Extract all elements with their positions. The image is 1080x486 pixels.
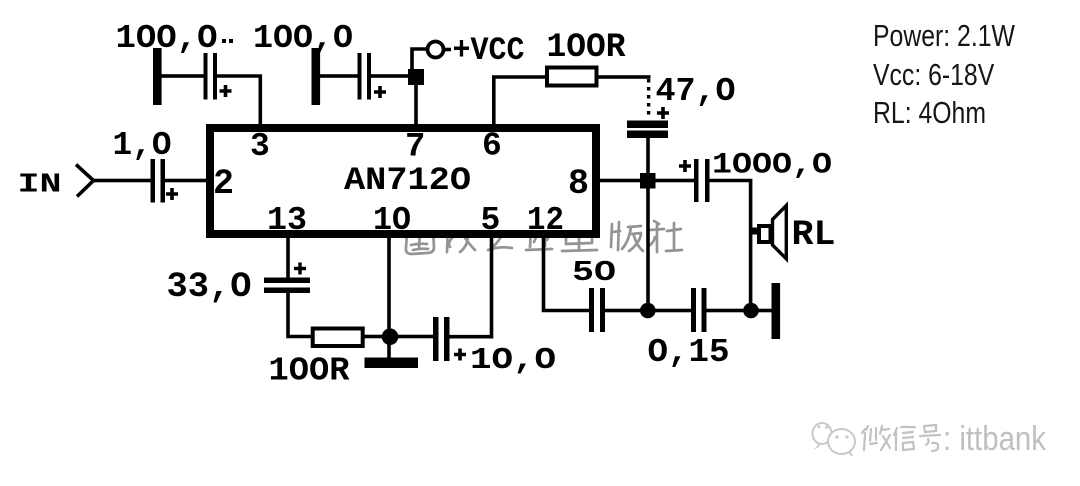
wire node8 to C5 [654,179,694,183]
plus C3 [166,188,178,200]
wire C9 to pin5 [449,238,492,337]
speaker RL [751,206,786,259]
resistor R2 100R [313,329,363,347]
svg-text:1,O: 1,O [113,127,172,164]
label 0,15 [648,334,730,371]
wechat logo [813,423,856,457]
wire junction to pin7 [414,84,418,124]
plus C4 [657,107,669,119]
plus C2 [374,86,386,98]
svg-text:1OO,O: 1OO,O [116,20,218,57]
label 100,0.. [116,20,234,57]
label 100R (R2) [269,353,350,390]
node C junction [743,303,759,319]
ground bar (right) [772,283,781,339]
pin 3 [250,128,270,165]
VCC terminal circle [428,42,452,58]
capacitor C6 50 [589,288,605,332]
wire pin10 down [387,238,391,330]
capacitor C4 47,0 [627,121,668,139]
wire C6 to node B [605,309,643,313]
capacitor C2 100,0 [358,53,372,100]
wire R1 to C4 [597,75,651,79]
svg-text:AN712O: AN712O [344,162,471,199]
svg-text:RL: RL [792,215,836,255]
info text RL [873,95,986,129]
IN label [18,171,62,201]
svg-text:O,15: O,15 [648,334,730,371]
label 1000,0 [712,148,832,182]
ground bar (C1) [153,48,162,105]
wire C2 to node VCC [371,74,409,78]
plus C5 [679,160,691,172]
wire pin8 to node [600,179,642,183]
pin 8 [568,164,589,204]
pin 13 [267,202,307,239]
svg-text:5O: 5O [572,256,616,289]
wire C1 to pin3 [217,76,260,124]
svg-text:7: 7 [405,129,425,167]
label 100,0 (C2) [253,20,353,57]
label +VCC [453,32,525,69]
info text Power [873,18,1015,52]
svg-text:8: 8 [568,164,589,204]
svg-text:13: 13 [267,202,307,239]
wire pin12 down and right [544,238,591,311]
node 8 junction [640,173,656,189]
pin 6 [482,128,502,165]
node B junction [640,303,656,319]
wire C5 to speaker column [709,181,751,307]
IC U1 AN7120 [210,128,596,234]
wire IN to C3 [93,179,151,183]
wire node C to ground [756,309,773,313]
info text Vcc [873,57,995,91]
wire node B to C7 [653,309,691,313]
label 50 [572,256,616,289]
pin 10 [373,202,411,239]
wire C3 to pin2 [165,179,207,183]
node VCC junction [408,69,424,85]
svg-text:: ittbank: : ittbank [943,420,1047,458]
pin 2 [213,164,234,204]
wire pin6 up and to R1 [494,77,546,124]
svg-text:+VCC: +VCC [453,32,525,69]
capacitor C1 100,0 [204,53,218,100]
plus C8 [294,263,306,275]
label AN7120 [344,162,471,199]
wire pin13 down [286,238,290,279]
wire gnd to C2 [320,74,358,78]
label 47,0 [656,73,736,110]
svg-text:Power: 2.1W: Power: 2.1W [873,18,1015,52]
svg-text:33,O: 33,O [167,267,252,307]
svg-text:1OOR: 1OOR [269,353,350,390]
capacitor C5 1000,0 [694,159,710,202]
plus C9 [454,349,466,361]
wire gnd to C1 [161,74,205,78]
ground bar (C2) [312,48,321,105]
svg-text:6: 6 [482,128,502,165]
svg-text:1OOO,O: 1OOO,O [712,148,832,182]
capacitor C3 1,0 [151,159,166,203]
svg-text:47,O: 47,O [656,73,736,110]
label RL [792,215,836,255]
svg-text:RL: 4Ohm: RL: 4Ohm [873,95,986,129]
capacitor C8 33,0 [264,278,310,294]
svg-text:3: 3 [250,128,270,165]
wire node8 down to node B [646,187,650,307]
label 100R (R1) [547,29,627,67]
svg-text:1OO,O: 1OO,O [253,20,353,57]
capacitor C7 0,15 [691,288,707,332]
svg-text:Vcc: 6-18V: Vcc: 6-18V [873,57,995,91]
label 10,0 [470,343,556,378]
input arrow [76,165,94,197]
label 1,0 [113,127,172,164]
label 33,0 [167,267,252,307]
ground bar (bottom) [365,358,419,369]
svg-text:1O,O: 1O,O [470,343,556,378]
watermark 国防工业出版社 [406,221,682,254]
plus C1 [220,85,232,97]
svg-text:2: 2 [213,164,234,204]
capacitor C9 10,0 [433,317,450,361]
svg-text:1O: 1O [373,202,411,239]
stub node A to ground [387,343,391,359]
pin 12 [527,202,564,239]
wire C8 down to R2 [288,292,312,337]
resistor R1 100R [547,68,597,86]
wire junction to VCC terminal [412,49,426,70]
svg-text:5: 5 [481,202,501,239]
svg-text:IN: IN [18,171,62,201]
wire C4 to node8 [646,137,650,177]
wire node A to C9 [396,335,433,339]
wire C7 to node C [706,309,746,313]
node A junction [382,328,399,345]
wire R2 to node A [363,335,384,339]
wechat text ittbank [862,420,1047,458]
pin 5 [481,202,501,239]
dotted wire down to C4 [647,79,650,118]
pin 7 [405,129,425,167]
svg-text:1OOR: 1OOR [547,29,627,67]
svg-text:12: 12 [527,202,564,239]
